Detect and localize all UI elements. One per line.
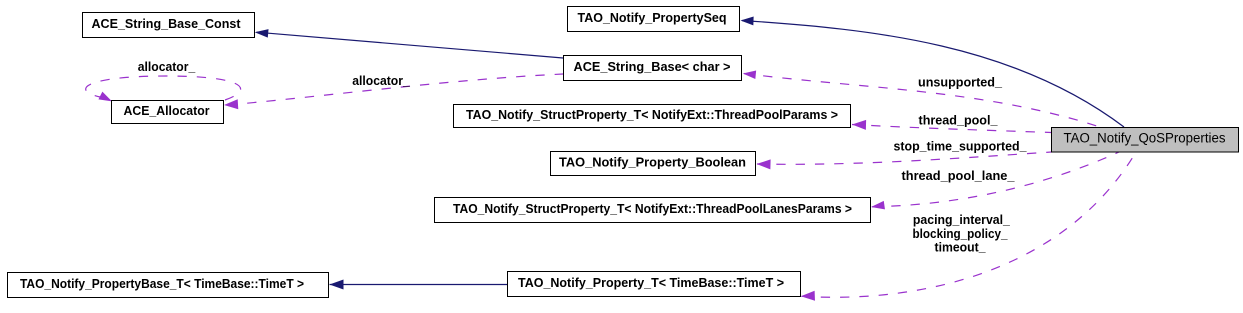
- svg-text:timeout_: timeout_: [935, 240, 987, 254]
- svg-text:ACE_Allocator: ACE_Allocator: [124, 104, 210, 118]
- node ACE_String_Base_Const: [83, 13, 255, 38]
- usage edge unsupported_ : TAO_Notify_QoSProperties to ACE_String_Base&lt;char&gt;: [742, 69, 1100, 127]
- svg-text:thread_pool_lane_: thread_pool_lane_: [902, 169, 1016, 183]
- svg-text:pacing_interval_: pacing_interval_: [913, 213, 1011, 227]
- inheritance edge: ACE_String_Base&lt;char&gt; to ACE_String_Base_Const: [254, 28, 563, 58]
- node TAO_Notify_PropertySeq: [568, 7, 740, 32]
- inheritance edge: TAO_Notify_Property_T&lt;TimeBase::TimeT&gt; to TAO_Notify_PropertyBase_T&lt;TimeBase::TimeT&gt;: [330, 280, 508, 290]
- svg-text:thread_pool_: thread_pool_: [919, 114, 999, 128]
- usage edge pacing_interval_/blocking_policy_/timeout_ : TAO_Notify_QoSProperties to TAO_Notify_Property_T&lt;TimeBase::TimeT&gt;: [801, 152, 1136, 301]
- node TAO_Notify_QoSProperties (current, grey): [1052, 128, 1239, 153]
- svg-text:allocator_: allocator_: [352, 74, 411, 88]
- usage edge thread_pool_ : TAO_Notify_QoSProperties to TAO_Notify_StructProperty_T&lt;NotifyExt::ThreadPoolParams&gt;: [852, 120, 1052, 133]
- usage edge allocator_ self-loop on ACE_Allocator: [86, 76, 241, 105]
- node ACE_String_Base&lt; char &gt;: [564, 56, 742, 81]
- svg-text:stop_time_supported_: stop_time_supported_: [894, 140, 1028, 154]
- node TAO_Notify_StructProperty_T&lt; NotifyExt::ThreadPoolLanesParams &gt;: [435, 198, 871, 223]
- node TAO_Notify_PropertyBase_T&lt; TimeBase::TimeT &gt;: [8, 273, 329, 298]
- node TAO_Notify_Property_Boolean: [551, 152, 756, 176]
- svg-text:TAO_Notify_StructProperty_T< N: TAO_Notify_StructProperty_T< NotifyExt::…: [453, 202, 852, 216]
- edge label pacing_interval_ blocking_policy_ timeout_: [913, 213, 1011, 254]
- svg-text:TAO_Notify_PropertySeq: TAO_Notify_PropertySeq: [578, 11, 727, 25]
- svg-text:allocator_: allocator_: [138, 60, 197, 74]
- svg-text:unsupported_: unsupported_: [918, 76, 1003, 90]
- svg-text:TAO_Notify_QoSProperties: TAO_Notify_QoSProperties: [1064, 130, 1226, 145]
- svg-text:blocking_policy_: blocking_policy_: [913, 227, 1009, 241]
- node TAO_Notify_Property_T&lt; TimeBase::TimeT &gt;: [508, 272, 801, 297]
- svg-text:TAO_Notify_PropertyBase_T< Tim: TAO_Notify_PropertyBase_T< TimeBase::Tim…: [20, 277, 304, 291]
- inheritance edge: TAO_Notify_QoSProperties to TAO_Notify_PropertySeq: [740, 16, 1124, 127]
- usage edge stop_time_supported_ : TAO_Notify_QoSProperties to TAO_Notify_Property_Boolean: [756, 152, 1051, 169]
- usage edge allocator_ : ACE_String_Base&lt;char&gt; to ACE_Allocator: [224, 74, 563, 110]
- svg-text:ACE_String_Base_Const: ACE_String_Base_Const: [92, 17, 242, 31]
- svg-text:TAO_Notify_Property_T< TimeBas: TAO_Notify_Property_T< TimeBase::TimeT >: [518, 276, 784, 290]
- svg-text:ACE_String_Base< char >: ACE_String_Base< char >: [574, 60, 731, 74]
- svg-text:TAO_Notify_Property_Boolean: TAO_Notify_Property_Boolean: [559, 156, 746, 170]
- svg-text:TAO_Notify_StructProperty_T< N: TAO_Notify_StructProperty_T< NotifyExt::…: [466, 108, 838, 122]
- node ACE_Allocator: [112, 101, 224, 124]
- node TAO_Notify_StructProperty_T&lt; NotifyExt::ThreadPoolParams &gt;: [454, 105, 851, 128]
- usage edge thread_pool_lane_ : TAO_Notify_QoSProperties to TAO_Notify_StructProperty_T&lt;NotifyExt::ThreadPoolLanesParams&gt;: [870, 152, 1119, 211]
